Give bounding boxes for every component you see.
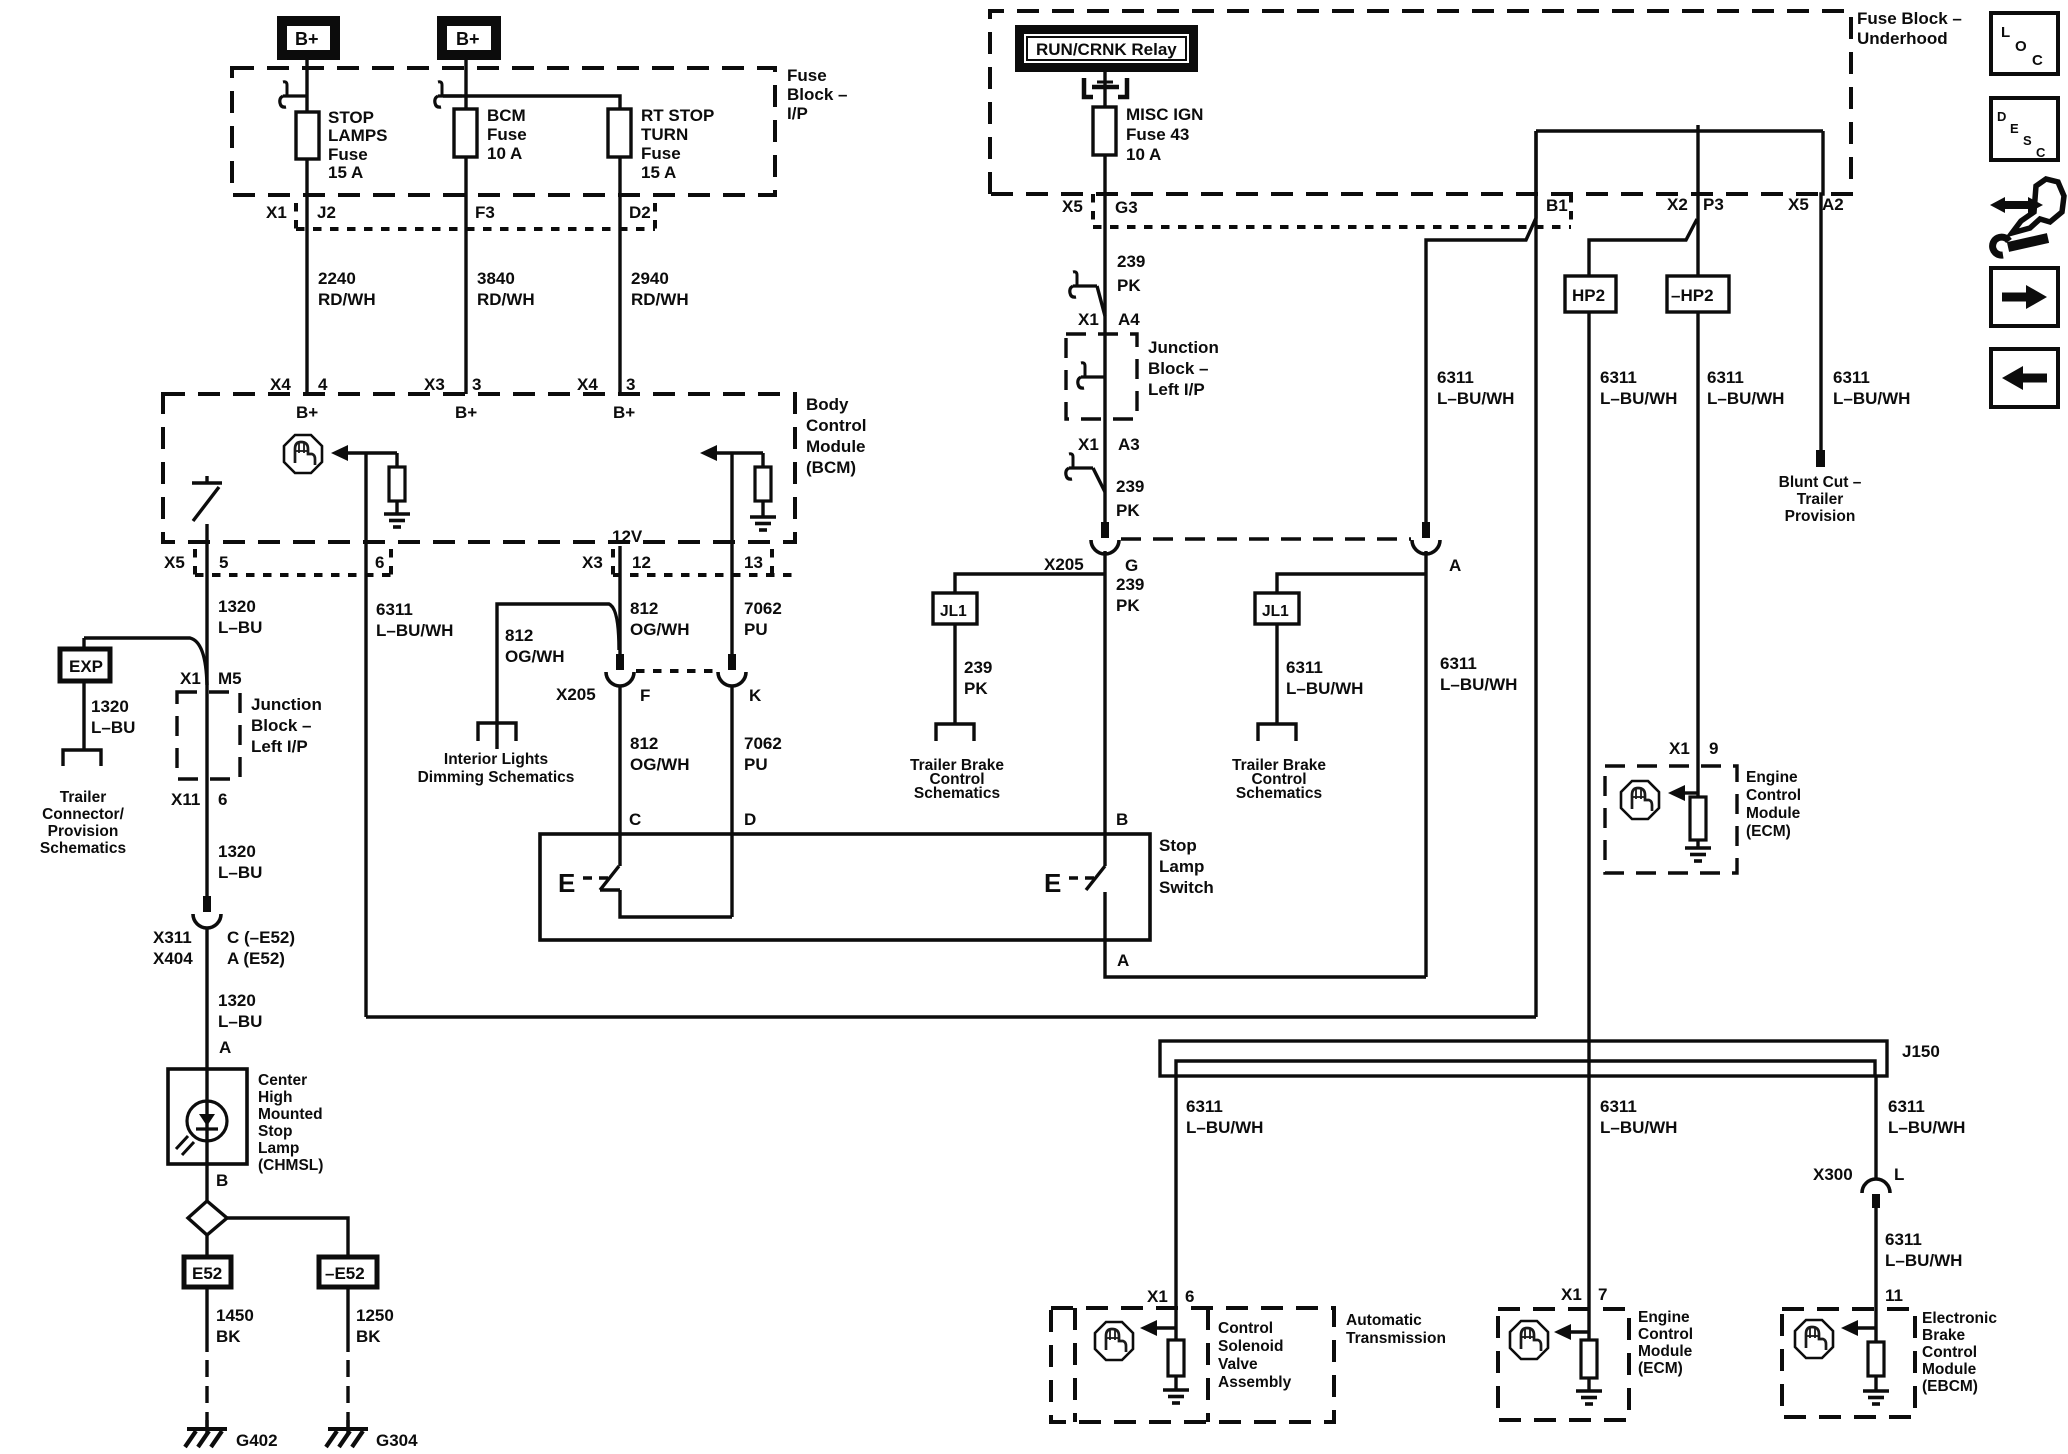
svg-text:G3: G3 <box>1115 198 1138 217</box>
svg-text:Switch: Switch <box>1159 878 1214 897</box>
svg-text:RD/WH: RD/WH <box>318 290 376 309</box>
wire 2940 RD/WH <box>618 157 621 394</box>
BCM internal switch (stop lamp input) <box>192 476 222 521</box>
off-page bracket (interior lights) <box>478 723 516 741</box>
ground (BCM internal left) <box>384 514 410 527</box>
wire X300 to EBCM <box>1874 1208 1877 1342</box>
label 7062 PU (pin13) <box>744 599 782 639</box>
svg-text:X404: X404 <box>153 949 193 968</box>
connector X311/X404 female cup <box>193 914 221 928</box>
icon double arrow with wrench <box>1990 179 2064 255</box>
svg-text:Automatic: Automatic <box>1346 1312 1422 1329</box>
wire diamond to E52 <box>205 1235 208 1255</box>
svg-text:Assembly: Assembly <box>1218 1374 1292 1391</box>
junction block - left I/P dashed box (lower) <box>177 692 240 779</box>
svg-text:B+: B+ <box>455 403 477 422</box>
svg-text:Block –: Block – <box>251 716 311 735</box>
svg-text:A: A <box>1117 951 1129 970</box>
svg-text:Brake: Brake <box>1922 1327 1965 1344</box>
svg-text:Trailer: Trailer <box>1797 491 1844 508</box>
svg-text:L–BU/WH: L–BU/WH <box>1600 1118 1677 1137</box>
terminal clip at STOP LAMPS fuse <box>280 82 307 107</box>
svg-text:6: 6 <box>218 790 227 809</box>
svg-text:E: E <box>2010 121 2019 136</box>
label Engine Control Module (ECM) mid <box>1746 769 1801 840</box>
svg-text:X1: X1 <box>1561 1285 1582 1304</box>
svg-text:OG/WH: OG/WH <box>630 620 690 639</box>
svg-text:Solenoid: Solenoid <box>1218 1338 1283 1355</box>
wire switch A output <box>1105 892 1426 977</box>
svg-text:X5: X5 <box>164 553 185 572</box>
svg-text:10 A: 10 A <box>487 144 522 163</box>
svg-text:3840: 3840 <box>477 269 515 288</box>
label 1320 L-BU (below pin5) <box>218 597 262 637</box>
label Electronic Brake Control Module (EBCM) <box>1922 1310 1997 1395</box>
svg-text:Engine: Engine <box>1638 1309 1690 1326</box>
svg-text:Fuse: Fuse <box>787 66 827 85</box>
svg-text:6311: 6311 <box>1437 368 1474 387</box>
svg-text:1320: 1320 <box>91 697 129 716</box>
label 1320 L-BU (junction to X311) <box>218 842 262 882</box>
connector JL1 (G side) <box>933 593 977 624</box>
connector X205 K female cup <box>718 672 746 686</box>
svg-text:(ECM): (ECM) <box>1638 1360 1683 1377</box>
svg-text:I/P: I/P <box>787 104 808 123</box>
wire jumper to RT STOP TURN fuse <box>443 96 620 109</box>
power symbol B+ (left) <box>277 16 340 60</box>
label BCM Fuse 10 A <box>487 106 527 163</box>
wire F to switch C <box>618 686 621 866</box>
svg-text:B+: B+ <box>613 403 635 422</box>
arrow to solenoid logic <box>1140 1320 1176 1336</box>
svg-text:1320: 1320 <box>218 842 256 861</box>
svg-text:L–BU/WH: L–BU/WH <box>1833 389 1910 408</box>
label Engine Control Module (ECM) bottom <box>1638 1309 1693 1377</box>
label 2940 RD/WH <box>631 269 689 309</box>
label MISC IGN Fuse 43 10 A <box>1126 105 1203 164</box>
svg-text:Stop: Stop <box>1159 836 1197 855</box>
wire resistor to ground (ECM bottom) <box>1587 1378 1590 1391</box>
label Blunt Cut - Trailer Provision <box>1779 474 1862 525</box>
connector X205 G male tick <box>1101 522 1109 538</box>
lamp symbol (bulb) <box>176 1101 227 1155</box>
wire resistor to ground left <box>395 501 398 514</box>
label 6311 L-BU/WH (P3 wire) <box>1707 368 1784 408</box>
label X311 X404 <box>153 928 193 968</box>
wire pin 13 to X205-K <box>730 453 733 656</box>
svg-text:X311: X311 <box>153 928 192 947</box>
connector X300 male tick <box>1872 1194 1880 1208</box>
svg-text:X2: X2 <box>1667 195 1688 214</box>
svg-text:1320: 1320 <box>218 597 256 616</box>
svg-text:Control: Control <box>1922 1344 1977 1361</box>
ground (EBCM) <box>1863 1391 1889 1404</box>
ground G304 <box>326 1420 368 1447</box>
wire K to switch D <box>730 686 733 917</box>
svg-text:Fuse: Fuse <box>487 125 527 144</box>
svg-text:X4: X4 <box>577 375 598 394</box>
svg-text:Module: Module <box>1746 805 1801 822</box>
label Center High Mounted Stop Lamp (CHMSL) <box>258 1072 323 1174</box>
wire resistor to ground (solenoid) <box>1174 1376 1177 1390</box>
connector E52 <box>184 1257 231 1287</box>
label 239 PK (above X205 G) <box>1116 477 1144 520</box>
fuse RT STOP TURN 15A <box>608 109 631 157</box>
svg-text:Provision: Provision <box>48 823 119 840</box>
label Automatic Transmission <box>1346 1312 1446 1347</box>
svg-text:X205: X205 <box>556 685 596 704</box>
hand icon (ECM mid) <box>1621 781 1659 819</box>
wire -E52 down (1250 BK) <box>346 1287 349 1352</box>
svg-text:–E52: –E52 <box>325 1264 365 1283</box>
wire resistor drop right <box>761 453 764 467</box>
svg-text:Schematics: Schematics <box>1236 785 1322 802</box>
label 239 PK (B wire) <box>1116 575 1144 615</box>
svg-text:6: 6 <box>1185 1287 1194 1306</box>
svg-text:Electronic: Electronic <box>1922 1310 1997 1327</box>
wire JL1 to bracket (239 PK) <box>953 624 956 723</box>
svg-text:6311: 6311 <box>376 600 413 619</box>
control solenoid valve dashed dividers <box>1075 1308 1208 1422</box>
BCM bottom connector rows <box>195 549 795 575</box>
svg-text:6311: 6311 <box>1600 1097 1637 1116</box>
pin label X1 7 (ECM bottom) <box>1561 1285 1607 1304</box>
wire switch B input <box>1103 551 1106 866</box>
svg-text:M5: M5 <box>218 669 242 688</box>
label STOP LAMPS Fuse 15 A <box>328 108 388 182</box>
svg-text:L–BU/WH: L–BU/WH <box>1440 675 1517 694</box>
svg-text:Center: Center <box>258 1072 307 1089</box>
connector X205 F male tick <box>616 654 624 670</box>
svg-text:L: L <box>2001 24 2010 41</box>
wire EXP drop <box>82 638 85 649</box>
EBCM dashed box <box>1782 1309 1915 1417</box>
fuse STOP LAMPS 15A <box>296 112 319 159</box>
svg-text:K: K <box>749 686 762 705</box>
resistor (BCM pull-down left) <box>389 467 405 501</box>
svg-text:Connector/: Connector/ <box>42 806 125 823</box>
svg-text:X4: X4 <box>270 375 291 394</box>
svg-text:239: 239 <box>1116 477 1144 496</box>
terminal clip below junction block <box>1066 454 1105 492</box>
svg-text:7062: 7062 <box>744 599 782 618</box>
svg-text:C: C <box>629 810 641 829</box>
label 812 OG/WH (branch) <box>505 626 565 666</box>
svg-text:L–BU/WH: L–BU/WH <box>1286 679 1363 698</box>
label Trailer Brake Control Schematics (G) <box>910 757 1004 802</box>
svg-text:4: 4 <box>318 375 328 394</box>
connector row under underhood block (G3) <box>1093 194 1571 227</box>
switch contact E (right, stop lamp switch) <box>1044 866 1105 898</box>
svg-text:A2: A2 <box>1822 195 1844 214</box>
label Fuse Block - I/P <box>787 66 847 123</box>
svg-text:(EBCM): (EBCM) <box>1922 1378 1978 1395</box>
wire branch to EXP <box>84 638 207 685</box>
svg-text:A4: A4 <box>1118 310 1140 329</box>
svg-text:L–BU/WH: L–BU/WH <box>376 621 453 640</box>
connector X205 K male tick <box>728 654 736 670</box>
pin label X1 A4 <box>1078 310 1140 329</box>
svg-text:F: F <box>640 686 650 705</box>
wire E52 down (1450 BK) <box>205 1287 208 1352</box>
icon box LOC <box>1991 13 2058 74</box>
pin label X1 6 (solenoid) <box>1147 1287 1194 1306</box>
label 6311 L-BU/WH (A2 wire) <box>1833 368 1910 408</box>
svg-text:L–BU/WH: L–BU/WH <box>1600 389 1677 408</box>
icon box right arrow <box>1991 268 2058 326</box>
svg-text:X3: X3 <box>582 553 603 572</box>
wire through junction block to X311 <box>205 578 208 896</box>
label 1320 L-BU (EXP branch) <box>91 697 135 737</box>
svg-text:Module: Module <box>806 437 866 456</box>
svg-text:L–BU/WH: L–BU/WH <box>1707 389 1784 408</box>
connector X205 G female cup <box>1091 540 1119 554</box>
svg-text:13: 13 <box>744 553 763 572</box>
svg-text:Block –: Block – <box>787 85 847 104</box>
svg-text:B+: B+ <box>295 29 319 49</box>
lamp CHMSL box <box>168 1069 247 1164</box>
wire J150 left drop <box>1174 1076 1177 1340</box>
svg-text:5: 5 <box>219 553 228 572</box>
fuse block underhood dashed box <box>990 11 1851 194</box>
svg-text:Lamp: Lamp <box>258 1140 299 1157</box>
BCM dashed box <box>163 394 795 542</box>
svg-text:2240: 2240 <box>318 269 356 288</box>
svg-text:12: 12 <box>632 553 651 572</box>
svg-text:PU: PU <box>744 620 768 639</box>
label RT STOP TURN Fuse 15 A <box>641 106 714 182</box>
svg-text:B1: B1 <box>1546 196 1568 215</box>
svg-text:L–BU: L–BU <box>218 1012 262 1031</box>
svg-text:Left I/P: Left I/P <box>1148 380 1205 399</box>
svg-text:D2: D2 <box>629 203 651 222</box>
arrow to EBCM logic <box>1841 1320 1876 1336</box>
dashed row X205 G-A <box>1121 537 1411 540</box>
svg-text:E: E <box>558 868 575 898</box>
svg-text:BK: BK <box>356 1327 381 1346</box>
svg-text:6311: 6311 <box>1707 368 1744 387</box>
wire JL1 branch (G side) <box>955 574 1105 593</box>
svg-text:X1: X1 <box>1078 310 1099 329</box>
svg-text:P3: P3 <box>1703 195 1724 214</box>
svg-text:Control: Control <box>1638 1326 1693 1343</box>
svg-text:X1: X1 <box>266 203 287 222</box>
automatic transmission dashed box <box>1051 1308 1334 1422</box>
wire J150 right drop <box>1874 1076 1877 1180</box>
svg-text:JL1: JL1 <box>940 603 967 620</box>
wire BCM switch to pin 5 <box>205 524 208 578</box>
svg-text:Junction: Junction <box>1148 338 1219 357</box>
dashed wire to G402 <box>205 1360 208 1429</box>
svg-text:Valve: Valve <box>1218 1356 1258 1373</box>
svg-text:PK: PK <box>1116 596 1140 615</box>
svg-text:Schematics: Schematics <box>914 785 1000 802</box>
svg-text:X300: X300 <box>1813 1165 1853 1184</box>
svg-text:Engine: Engine <box>1746 769 1798 786</box>
svg-text:Lamp: Lamp <box>1159 857 1204 876</box>
svg-text:L–BU/WH: L–BU/WH <box>1437 389 1514 408</box>
wire X311 to CHMSL <box>205 928 208 1069</box>
svg-text:Blunt Cut –: Blunt Cut – <box>1779 474 1862 491</box>
svg-text:L–BU: L–BU <box>91 718 135 737</box>
ground (ECM bottom) <box>1576 1391 1602 1404</box>
label Control Solenoid Valve Assembly <box>1218 1320 1292 1391</box>
hand icon (solenoid) <box>1095 1322 1133 1360</box>
label 2240 RD/WH <box>318 269 376 309</box>
pin label X1 A3 <box>1078 435 1140 454</box>
wire -HP2 to ECM X1-9 <box>1696 312 1699 797</box>
connector row under I/P fuse block <box>296 203 655 229</box>
svg-text:E52: E52 <box>192 1264 222 1283</box>
svg-text:E: E <box>1044 868 1061 898</box>
svg-text:A (E52): A (E52) <box>227 949 285 968</box>
arrow to BCM logic (left) <box>331 445 348 461</box>
svg-text:LAMPS: LAMPS <box>328 126 388 145</box>
resistor (EBCM) <box>1868 1342 1884 1376</box>
resistor (solenoid) <box>1168 1340 1184 1376</box>
wire HP2 to J150 and ECM <box>1587 312 1590 1340</box>
junction block - left I/P dashed box (upper) <box>1066 334 1137 419</box>
arrow to ECM bottom logic <box>1554 1324 1589 1340</box>
svg-text:2940: 2940 <box>631 269 669 288</box>
pin label X4 4 <box>270 375 328 394</box>
svg-text:Mounted: Mounted <box>258 1106 323 1123</box>
svg-text:1320: 1320 <box>218 991 256 1010</box>
blunt cut terminal <box>1816 450 1825 467</box>
svg-text:1250: 1250 <box>356 1306 394 1325</box>
svg-text:Block –: Block – <box>1148 359 1208 378</box>
svg-text:Fuse: Fuse <box>641 144 681 163</box>
svg-text:Fuse 43: Fuse 43 <box>1126 125 1189 144</box>
label 6311 L-BU/WH (to EBCM) <box>1885 1230 1962 1270</box>
connector JL1 (A side) <box>1255 593 1299 624</box>
ECM dashed box (mid right) <box>1605 766 1737 873</box>
terminal clip inside junction block <box>1078 363 1105 388</box>
splice HP2 <box>1565 276 1616 312</box>
fuse block I/P dashed box <box>232 68 775 195</box>
connector X300 female cap <box>1862 1179 1890 1193</box>
label 6311 L-BU/WH (right drop) <box>1888 1097 1965 1137</box>
label 6311 L-BU/WH (A net) <box>1440 654 1517 694</box>
svg-text:X1: X1 <box>1078 435 1099 454</box>
svg-text:6311: 6311 <box>1888 1097 1925 1116</box>
off-page bracket (trailer brake G) <box>936 724 974 741</box>
svg-text:Stop: Stop <box>258 1123 292 1140</box>
svg-text:Control: Control <box>1218 1320 1273 1337</box>
svg-text:MISC IGN: MISC IGN <box>1126 105 1203 124</box>
connector -E52 <box>319 1257 377 1287</box>
svg-text:B: B <box>216 1171 228 1190</box>
label Junction Block - Left I/P (upper) <box>1148 338 1219 399</box>
ground G402 <box>185 1420 227 1447</box>
svg-text:STOP: STOP <box>328 108 374 127</box>
svg-text:6311: 6311 <box>1885 1230 1922 1249</box>
wire CHMSL to splice diamond <box>205 1164 208 1201</box>
label 6311 L-BU/WH (mid drop) <box>1600 1097 1677 1137</box>
svg-text:C: C <box>2032 52 2043 69</box>
label Trailer Brake Control Schematics (A) <box>1232 757 1326 802</box>
svg-text:BCM: BCM <box>487 106 526 125</box>
svg-text:Underhood: Underhood <box>1857 29 1948 48</box>
label 239 PK (JL1 G) <box>964 658 992 698</box>
svg-text:L–BU/WH: L–BU/WH <box>1186 1118 1263 1137</box>
power symbol B+ (second) <box>437 16 501 60</box>
svg-text:X5: X5 <box>1788 195 1809 214</box>
svg-text:S: S <box>2023 133 2032 148</box>
wire B+ to BCM fuse <box>464 60 467 109</box>
svg-text:1450: 1450 <box>216 1306 254 1325</box>
svg-text:L–BU: L–BU <box>218 863 262 882</box>
pin label X3 3 <box>424 375 481 394</box>
svg-text:F3: F3 <box>475 203 495 222</box>
svg-text:RD/WH: RD/WH <box>477 290 535 309</box>
svg-text:X11: X11 <box>171 790 200 809</box>
svg-text:X1: X1 <box>180 669 201 688</box>
label 1320 L-BU (to CHMSL) <box>218 991 262 1031</box>
svg-text:239: 239 <box>1116 575 1144 594</box>
ground (ECM mid) <box>1685 848 1711 861</box>
wire resistor drop left <box>395 453 398 467</box>
hand icon (EBCM) <box>1795 1320 1833 1358</box>
svg-text:Control: Control <box>806 416 866 435</box>
wire 2240 RD/WH <box>305 159 308 394</box>
wire pin 6 drop (6311 L-BU/WH) <box>364 453 367 1017</box>
svg-text:Module: Module <box>1638 1343 1693 1360</box>
svg-text:L–BU/WH: L–BU/WH <box>1888 1118 1965 1137</box>
hand icon (ECM bottom) <box>1510 1321 1548 1359</box>
svg-text:L–BU/WH: L–BU/WH <box>1885 1251 1962 1270</box>
wire BCM internal right: arrow shaft, tee to pin 13, resistor drop <box>717 451 763 454</box>
svg-text:Control: Control <box>1746 787 1801 804</box>
label 1450 BK <box>216 1306 254 1346</box>
wire switch C-D jog <box>620 890 732 917</box>
label Junction Block - Left I/P (lower) <box>251 695 322 756</box>
svg-text:G: G <box>1125 556 1138 575</box>
svg-text:C: C <box>2036 145 2046 160</box>
label 6311 L-BU/WH (B1 wire) <box>1437 368 1514 408</box>
svg-text:–HP2: –HP2 <box>1671 286 1714 305</box>
fuse BCM 10A <box>454 109 477 157</box>
svg-text:15 A: 15 A <box>641 163 676 182</box>
wire X205 A down to switch A net <box>1424 551 1427 977</box>
svg-text:C (–E52): C (–E52) <box>227 928 295 947</box>
pin label X11 6 <box>171 790 227 809</box>
label 812 OG/WH (to switch) <box>630 734 690 774</box>
svg-text:PK: PK <box>1117 276 1141 295</box>
wire through CHMSL <box>205 1069 208 1164</box>
wire 3840 RD/WH <box>464 157 467 394</box>
wire BCM pin6 to B1 net (6311) <box>366 1015 1536 1018</box>
icon box left arrow <box>1991 349 2058 407</box>
svg-text:HP2: HP2 <box>1572 286 1605 305</box>
off-page bracket (trailer connector) <box>63 750 101 766</box>
connector X205 A female cup <box>1412 540 1440 554</box>
terminal clip at BCM fuse <box>435 82 462 107</box>
connector X205 A male tick <box>1422 522 1430 538</box>
wire A2 drop <box>1821 131 1823 450</box>
label 6311 L-BU/WH (left drop) <box>1186 1097 1263 1137</box>
label Stop Lamp Switch <box>1159 836 1214 897</box>
svg-text:RUN/CRNK Relay: RUN/CRNK Relay <box>1036 40 1177 59</box>
svg-text:G304: G304 <box>376 1431 418 1450</box>
label Trailer Connector/ Provision Schematics <box>40 789 126 857</box>
svg-text:9: 9 <box>1709 739 1718 758</box>
svg-text:(ECM): (ECM) <box>1746 823 1791 840</box>
label 6311 L-BU/WH (JL1 A) <box>1286 658 1363 698</box>
wire JL1 branch (A side) <box>1277 574 1426 593</box>
svg-text:D: D <box>1997 109 2006 124</box>
svg-text:6311: 6311 <box>1833 368 1870 387</box>
